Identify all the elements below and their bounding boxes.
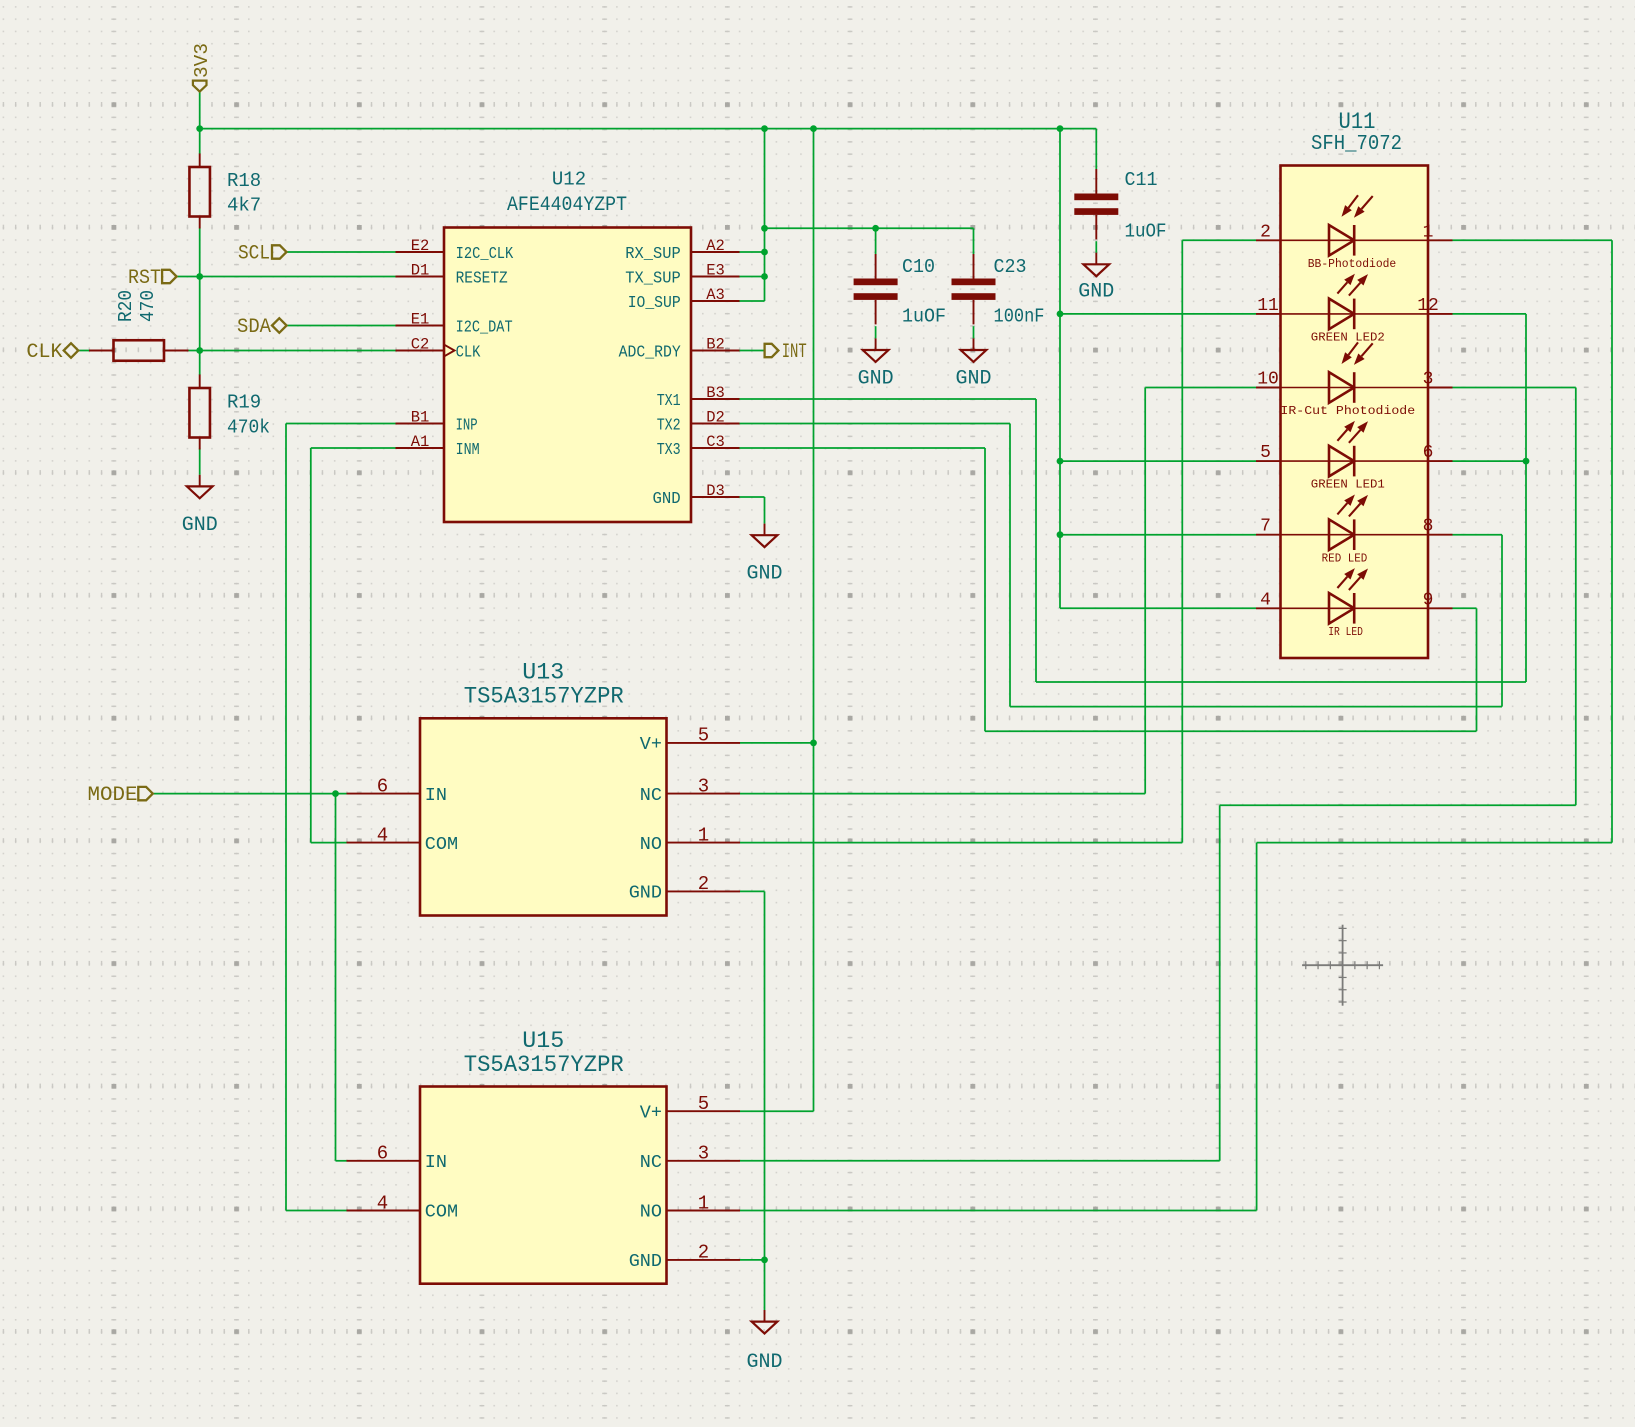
svg-text:GND: GND — [653, 489, 681, 508]
svg-text:TS5A3157YZPR: TS5A3157YZPR — [464, 1052, 624, 1078]
svg-text:MODE: MODE — [88, 784, 138, 807]
svg-text:100nF: 100nF — [994, 305, 1045, 327]
svg-text:TS5A3157YZPR: TS5A3157YZPR — [464, 684, 624, 710]
svg-text:GREEN LED2: GREEN LED2 — [1311, 331, 1385, 345]
svg-text:12: 12 — [1417, 296, 1439, 316]
svg-text:CLK: CLK — [456, 342, 481, 361]
svg-text:GND: GND — [747, 563, 783, 586]
svg-text:5: 5 — [698, 725, 709, 747]
svg-text:TX2: TX2 — [657, 415, 681, 434]
svg-text:U15: U15 — [522, 1028, 564, 1054]
svg-text:C11: C11 — [1125, 169, 1158, 191]
svg-text:GND: GND — [629, 1251, 662, 1272]
svg-text:U12: U12 — [552, 169, 586, 191]
svg-text:GREEN LED1: GREEN LED1 — [1311, 478, 1385, 492]
svg-text:3V3: 3V3 — [191, 43, 213, 78]
svg-text:R19: R19 — [227, 392, 261, 414]
svg-text:2: 2 — [698, 873, 709, 895]
svg-text:C2: C2 — [411, 336, 430, 354]
svg-text:R18: R18 — [227, 170, 261, 192]
svg-text:R20: R20 — [115, 290, 137, 322]
svg-text:B1: B1 — [411, 409, 430, 427]
svg-text:2: 2 — [1260, 222, 1271, 242]
svg-text:IN: IN — [425, 1152, 447, 1173]
svg-text:4: 4 — [377, 1192, 388, 1214]
svg-text:A2: A2 — [706, 237, 725, 255]
svg-text:CLK: CLK — [27, 341, 63, 364]
svg-text:6: 6 — [377, 1143, 388, 1165]
svg-text:COM: COM — [425, 834, 458, 855]
svg-text:D1: D1 — [411, 262, 430, 280]
svg-text:SCL: SCL — [238, 243, 270, 266]
svg-text:6: 6 — [377, 775, 388, 797]
svg-text:RED LED: RED LED — [1322, 551, 1368, 565]
svg-text:B2: B2 — [706, 336, 725, 354]
svg-text:470: 470 — [137, 290, 159, 322]
svg-text:1: 1 — [1423, 222, 1434, 242]
svg-text:B3: B3 — [706, 384, 725, 402]
svg-text:TX3: TX3 — [657, 440, 681, 459]
svg-text:A3: A3 — [706, 286, 725, 304]
svg-text:5: 5 — [698, 1093, 709, 1115]
svg-text:IN: IN — [425, 785, 447, 806]
svg-text:A1: A1 — [411, 433, 430, 451]
svg-text:RST: RST — [128, 267, 161, 290]
svg-text:1: 1 — [698, 1192, 709, 1214]
svg-text:I2C_CLK: I2C_CLK — [456, 244, 514, 263]
svg-text:NC: NC — [640, 785, 662, 806]
svg-text:3: 3 — [698, 1143, 709, 1165]
svg-text:U13: U13 — [522, 660, 564, 686]
svg-text:SDA: SDA — [237, 316, 271, 339]
svg-text:470k: 470k — [227, 417, 270, 439]
svg-text:INM: INM — [456, 440, 480, 459]
svg-text:1uOF: 1uOF — [902, 305, 946, 327]
svg-text:TX1: TX1 — [657, 391, 681, 410]
svg-text:INP: INP — [456, 415, 478, 434]
svg-text:E3: E3 — [706, 262, 725, 280]
svg-text:GND: GND — [747, 1351, 783, 1374]
svg-text:E2: E2 — [411, 237, 430, 255]
svg-text:11: 11 — [1257, 296, 1279, 316]
svg-text:V+: V+ — [640, 1102, 662, 1123]
svg-text:ADC_RDY: ADC_RDY — [619, 342, 681, 361]
svg-text:D3: D3 — [706, 482, 725, 500]
svg-text:C3: C3 — [706, 433, 725, 451]
svg-text:5: 5 — [1260, 443, 1271, 463]
svg-text:C10: C10 — [902, 256, 935, 278]
svg-text:COM: COM — [425, 1202, 458, 1223]
svg-text:TX_SUP: TX_SUP — [625, 268, 680, 287]
svg-text:BB-Photodiode: BB-Photodiode — [1308, 257, 1397, 271]
svg-text:I2C_DAT: I2C_DAT — [456, 317, 513, 336]
svg-text:V+: V+ — [640, 734, 662, 755]
svg-text:E1: E1 — [411, 311, 430, 329]
svg-text:3: 3 — [698, 775, 709, 797]
svg-text:RESETZ: RESETZ — [456, 268, 508, 287]
svg-text:GND: GND — [629, 883, 662, 904]
svg-text:D2: D2 — [706, 409, 725, 427]
svg-text:1uOF: 1uOF — [1125, 221, 1167, 243]
svg-text:NO: NO — [640, 834, 662, 855]
svg-text:NC: NC — [640, 1152, 662, 1173]
svg-text:6: 6 — [1423, 443, 1434, 463]
svg-text:INT: INT — [782, 341, 807, 364]
svg-text:GND: GND — [1078, 281, 1114, 304]
svg-text:IO_SUP: IO_SUP — [628, 293, 681, 312]
svg-text:GND: GND — [182, 514, 218, 537]
svg-text:AFE4404YZPT: AFE4404YZPT — [507, 194, 627, 217]
svg-text:9: 9 — [1423, 590, 1434, 610]
svg-text:4: 4 — [377, 824, 388, 846]
svg-text:4: 4 — [1260, 590, 1271, 610]
svg-text:C23: C23 — [994, 256, 1027, 278]
svg-text:IR LED: IR LED — [1328, 625, 1363, 639]
svg-text:GND: GND — [956, 368, 992, 391]
svg-text:RX_SUP: RX_SUP — [625, 244, 680, 263]
svg-text:NO: NO — [640, 1202, 662, 1223]
svg-text:4k7: 4k7 — [227, 195, 261, 217]
svg-text:GND: GND — [858, 368, 894, 391]
svg-text:2: 2 — [698, 1242, 709, 1264]
svg-text:3: 3 — [1423, 370, 1434, 390]
svg-text:SFH_7072: SFH_7072 — [1311, 132, 1402, 156]
svg-text:1: 1 — [698, 824, 709, 846]
svg-text:8: 8 — [1423, 517, 1434, 537]
svg-text:10: 10 — [1257, 370, 1279, 390]
svg-text:IR-Cut Photodiode: IR-Cut Photodiode — [1280, 404, 1415, 418]
svg-text:7: 7 — [1260, 517, 1271, 537]
